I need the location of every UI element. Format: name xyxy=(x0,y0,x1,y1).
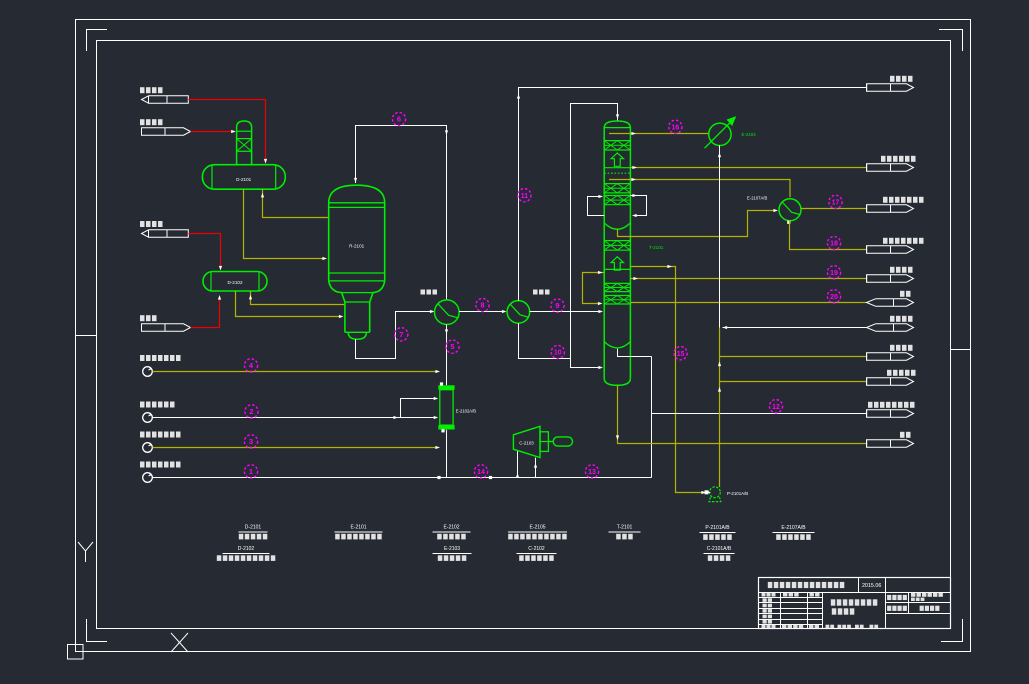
wire white E-2103 bottom to header row1 xyxy=(446,430,448,478)
centering tick right xyxy=(951,349,971,351)
svg-text:D-2101: D-2101 xyxy=(245,525,262,531)
fold mark Y bottom-left xyxy=(78,542,93,562)
svg-text:5: 5 xyxy=(450,342,454,351)
wire yellow sidedraw to flag r6 xyxy=(630,302,866,304)
svg-text:1: 1 xyxy=(249,467,253,476)
cooler E-2104 xyxy=(709,123,731,145)
svg-text:E-2102: E-2102 xyxy=(443,525,459,531)
wire red: BFW to riser column xyxy=(191,131,235,133)
wire yellow branch to flag r9 xyxy=(720,381,867,383)
stream bubble 18 xyxy=(827,237,840,250)
wire white circulating water from flag r7 xyxy=(723,327,867,329)
flag r11 xyxy=(867,440,914,447)
wire white left sidedraw loop xyxy=(588,197,605,216)
wire yellow branch to flag r8 xyxy=(720,356,867,358)
wire yellow pump discharge riser xyxy=(719,328,721,488)
wire white K-2102 discharge up to flag xyxy=(519,88,867,301)
exchanger E-2107A/B xyxy=(779,199,801,221)
stream bubble 16 xyxy=(669,120,682,133)
flag 锅炉给水 xyxy=(142,128,191,135)
wire yellow row3 to E-2103 downline xyxy=(153,447,438,449)
column T-2101 shell and packing xyxy=(604,121,630,378)
row2 label xyxy=(140,402,145,408)
compressor K-2102 tag xyxy=(533,290,538,295)
flag r1 xyxy=(867,84,914,91)
wire yellow drum1 to reactor upper inlet xyxy=(263,189,329,217)
corner mark bottom-left xyxy=(87,619,108,642)
flag r8 xyxy=(867,353,914,360)
flag r9 label xyxy=(887,370,892,376)
sheet inner border frame xyxy=(97,41,951,629)
svg-text:R-2101: R-2101 xyxy=(349,244,365,249)
wire yellow E-2107 bottom to flag r4 xyxy=(790,221,867,250)
utility symbol row2 xyxy=(143,413,153,423)
flag 高压蒸汽 xyxy=(142,96,189,103)
flag r10 label xyxy=(868,402,873,408)
wire yellow sidedraw to flag r2 xyxy=(630,167,866,169)
wire yellow drum1 to reactor lower inlet xyxy=(244,189,325,258)
wire yellow column bottoms to flag r11 xyxy=(618,385,867,443)
svg-text:E-2102A/B: E-2102A/B xyxy=(456,408,476,413)
svg-text:17: 17 xyxy=(832,200,840,207)
title cell tutor name xyxy=(911,593,915,597)
corner mark top-right xyxy=(939,30,963,52)
flag r8 label xyxy=(890,345,895,351)
wire yellow left pumparound loop xyxy=(583,273,605,304)
corner mark top-left xyxy=(87,30,108,52)
svg-text:3: 3 xyxy=(249,437,253,446)
flag r3 label xyxy=(883,197,888,203)
svg-text:E-2104: E-2104 xyxy=(742,132,757,137)
svg-text:P-2101A/B: P-2101A/B xyxy=(705,525,730,531)
stream bubble 9 xyxy=(551,299,564,312)
flag r2 label xyxy=(881,156,886,162)
title cell 设计阶段 xyxy=(887,606,891,611)
compressor K-2102 xyxy=(507,301,530,324)
svg-text:8: 8 xyxy=(480,301,484,310)
title cell 指导教师 xyxy=(887,595,891,600)
svg-text:C-2101A/B: C-2101A/B xyxy=(707,546,732,552)
pump P-2101A/B xyxy=(710,487,721,498)
stream bubble 12 xyxy=(769,400,782,413)
flag r5 xyxy=(867,275,914,282)
wire white K-2102 to column xyxy=(530,311,601,313)
wire white branch to flag r10 xyxy=(652,413,867,415)
svg-text:15: 15 xyxy=(677,351,685,358)
stream bubble 14 xyxy=(474,465,487,478)
flag r1 label xyxy=(890,76,895,82)
stream bubble 8 xyxy=(476,298,489,311)
svg-text:D-2102: D-2102 xyxy=(238,546,255,552)
wire white turbine drain right xyxy=(535,458,537,478)
wire white right sidedraw loop xyxy=(630,196,646,216)
stream bubble 2 xyxy=(245,405,258,418)
wire yellow chimney tray draw to E-2107 xyxy=(618,211,777,237)
svg-text:D-2102: D-2102 xyxy=(227,280,243,285)
stream bubble 10 xyxy=(551,345,564,358)
corner mark bottom-right xyxy=(941,619,963,642)
svg-text:2015.06: 2015.06 xyxy=(862,583,882,589)
svg-text:D-2101: D-2101 xyxy=(236,177,252,182)
stream bubble 1 xyxy=(244,465,257,478)
stream bubble 13 xyxy=(585,465,598,478)
svg-text:18: 18 xyxy=(830,241,838,248)
wire yellow drum2 to reactor neck upper xyxy=(251,291,345,305)
svg-text:13: 13 xyxy=(588,469,596,476)
stream bubble 19 xyxy=(827,266,840,279)
svg-text:T-2101: T-2101 xyxy=(617,525,633,531)
flag r9 xyxy=(867,378,914,385)
title drawing name line2 xyxy=(832,608,837,614)
stream bubble 20 xyxy=(827,290,840,303)
flag 高压蒸汽 (HP steam) label xyxy=(140,87,145,93)
wire yellow sidedraw to flag r5 xyxy=(630,278,866,280)
flag 低压蒸汽 xyxy=(142,230,189,237)
wire white turbine drain left xyxy=(517,451,519,477)
wire white long vertical to column bottom xyxy=(571,104,618,368)
svg-text:E-2107A/B: E-2107A/B xyxy=(781,525,806,531)
small square bottom-left corner xyxy=(68,645,84,660)
flag 低压蒸汽 label xyxy=(140,221,145,227)
utility symbol row4 xyxy=(143,367,153,377)
svg-text:2: 2 xyxy=(249,407,253,416)
svg-text:C-2103: C-2103 xyxy=(519,441,534,446)
flag r5 label xyxy=(890,267,895,273)
centering tick left xyxy=(76,335,96,337)
title text institute xyxy=(768,582,773,588)
stream bubble 5 xyxy=(446,340,459,353)
wire yellow sidedraw to E-2107 top xyxy=(609,180,790,198)
svg-text:20: 20 xyxy=(830,294,838,301)
svg-text:E-2107A/B: E-2107A/B xyxy=(747,196,767,201)
stream bubble 3 xyxy=(244,435,257,448)
flag 脱盐水 label xyxy=(140,315,145,321)
stream bubble 11 xyxy=(518,189,531,202)
wire yellow drum2 to reactor neck lower xyxy=(236,291,342,317)
svg-text:6: 6 xyxy=(397,115,401,124)
svg-text:11: 11 xyxy=(521,193,529,200)
title drawing name line1 xyxy=(831,599,836,605)
svg-text:14: 14 xyxy=(477,469,485,476)
compressor K-2101 tag xyxy=(421,290,426,295)
stream bubble 6 xyxy=(392,112,405,125)
flag r4 label xyxy=(883,238,888,244)
wire white cooling water riser to E-2104 xyxy=(719,145,721,327)
svg-text:12: 12 xyxy=(772,404,780,411)
wire white row2 nitrogen line xyxy=(153,417,401,419)
row1 label xyxy=(140,462,145,468)
wire yellow E-2107 outlet to flag r3 xyxy=(801,208,867,210)
wire red: HP steam to drum D-2101 top xyxy=(188,100,265,164)
svg-text:E-2103: E-2103 xyxy=(444,546,460,552)
flag r10 xyxy=(867,410,914,417)
wire yellow column top vapor to E-2104 xyxy=(609,133,709,135)
flag 脱盐水 xyxy=(142,324,191,331)
compressor K-2101 xyxy=(435,300,460,325)
svg-text:C-2102: C-2102 xyxy=(528,546,545,552)
stream bubble 17 xyxy=(829,195,842,208)
title cell 初步设计 xyxy=(920,606,924,611)
flag r6 xyxy=(867,299,914,306)
title block grid xyxy=(759,578,951,629)
wire yellow tray draw to pump P-2101 xyxy=(630,267,704,493)
wire red: demin water to drum D-2102 bottom xyxy=(191,298,220,328)
turbine C-2103 xyxy=(513,426,540,457)
drum D-2102 xyxy=(203,272,267,292)
svg-text:E-2105: E-2105 xyxy=(529,525,545,531)
svg-text:E-2101: E-2101 xyxy=(350,525,366,531)
title block field labels xyxy=(762,593,766,597)
flag r3 xyxy=(867,205,914,212)
wire red: LP steam to drum D-2102 top xyxy=(188,234,220,268)
flag r4 xyxy=(867,246,914,253)
X mark bottom border xyxy=(171,633,188,652)
wire white K-2102 bottom bypass xyxy=(519,323,571,358)
wire white bracket into E-2103 xyxy=(401,399,437,418)
reactor R-2101 shell xyxy=(329,185,385,281)
flag r7 label xyxy=(890,316,895,322)
stream bubble 15 xyxy=(674,347,687,360)
flag r11 label xyxy=(900,432,905,438)
drum D-2101 xyxy=(202,165,285,190)
exchanger E-2102A/B vertical xyxy=(438,385,454,389)
svg-text:P-2101A/B: P-2101A/B xyxy=(727,491,748,496)
svg-text:9: 9 xyxy=(555,301,559,310)
flag r6 label xyxy=(900,291,905,297)
row3 label xyxy=(140,432,145,438)
wire white row1 long header to column xyxy=(153,477,652,479)
svg-text:19: 19 xyxy=(830,270,838,277)
flag r2 xyxy=(867,164,914,171)
wire white reactor top gas to K-2101 xyxy=(356,126,447,300)
riser packed column on D-2101 xyxy=(237,121,252,165)
wire yellow row4 to E-2103 downline xyxy=(153,371,438,373)
wire white reactor bottom to K-2101 suction xyxy=(356,312,434,359)
svg-text:7: 7 xyxy=(399,330,403,339)
svg-text:10: 10 xyxy=(554,350,562,357)
svg-text:T-2101: T-2101 xyxy=(649,245,664,250)
wire white K-2101 to K-2102 xyxy=(459,311,504,313)
row4 label xyxy=(140,355,145,361)
wire white K-2101 bottom to E-2103 xyxy=(446,325,448,386)
stream bubble 7 xyxy=(395,328,408,341)
utility symbol row1 xyxy=(143,473,153,483)
utility symbol row3 xyxy=(143,443,153,453)
svg-text:16: 16 xyxy=(672,124,680,131)
flag r7 xyxy=(867,324,914,331)
stream bubble 4 xyxy=(244,359,257,372)
flag 锅炉给水 label xyxy=(140,119,145,125)
wire white bowl2 draw down xyxy=(618,349,652,478)
